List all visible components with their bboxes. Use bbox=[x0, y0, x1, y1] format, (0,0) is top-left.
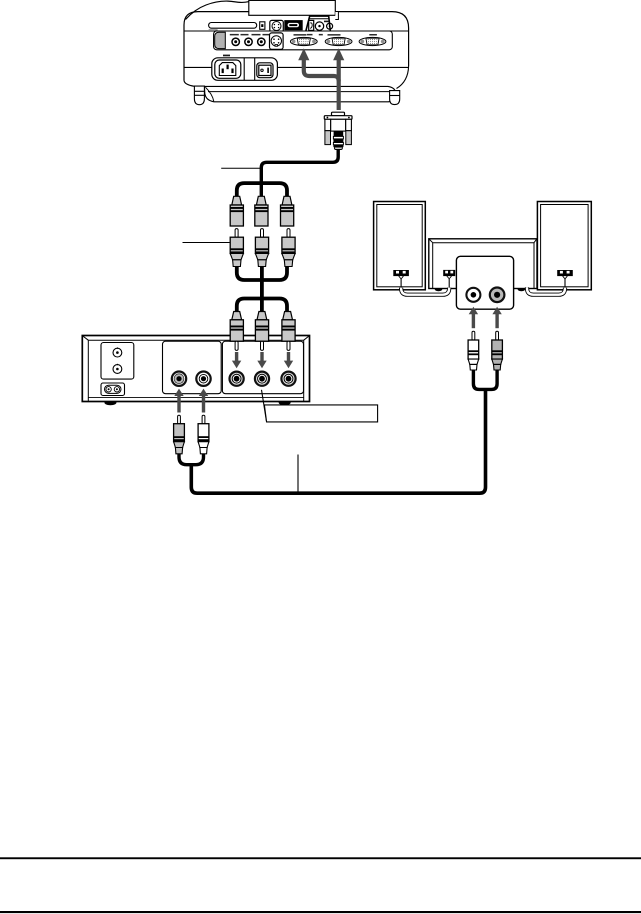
S-video port upper bbox=[270, 20, 284, 31]
cable from VGA plug bbox=[261, 150, 338, 197]
AC IN label bbox=[223, 55, 230, 57]
signal cable main shaft bbox=[337, 60, 341, 111]
PC control DIN port bbox=[315, 22, 323, 34]
arrow into COMPUTER 1 bbox=[298, 48, 309, 60]
PC card slot bbox=[209, 23, 257, 29]
left speaker wire bbox=[401, 279, 449, 295]
component Cr jack bbox=[281, 372, 295, 386]
S-video port lower bbox=[270, 33, 284, 49]
audio video RCA jack 1 bbox=[232, 38, 239, 45]
cable splitter bottom bbox=[237, 299, 287, 312]
VGA connector COMPUTER 2 IN bbox=[325, 37, 352, 45]
callout label box DVD bbox=[264, 405, 377, 422]
footer rule upper bbox=[0, 857, 641, 859]
arrow into amp R jack bbox=[492, 307, 501, 328]
amp audio R jack bbox=[490, 288, 505, 303]
arrow into Cr jack bbox=[284, 352, 293, 368]
VGA connector RGB OUT bbox=[359, 37, 386, 45]
amp audio L jack bbox=[466, 288, 480, 302]
arrow into COMPUTER 2 bbox=[333, 48, 344, 60]
amplifier left terminal bbox=[443, 270, 455, 276]
VGA connector COMPUTER 1 IN bbox=[290, 37, 317, 45]
RCA plug into Cb jack bbox=[255, 312, 268, 351]
RCA plug down Cb bbox=[255, 196, 268, 226]
IEC inlet shield bbox=[219, 63, 236, 76]
right rear foot bbox=[390, 91, 400, 105]
component Y jack bbox=[230, 372, 244, 386]
audio plug R bbox=[198, 415, 209, 454]
arrow into Y jack bbox=[232, 352, 241, 368]
DVD audio panel bbox=[163, 341, 222, 394]
audio cable R branch bbox=[191, 454, 203, 465]
leader line optional cable bbox=[221, 167, 260, 169]
audio L jack bbox=[172, 372, 186, 386]
audio cable run to amplifier bbox=[191, 389, 485, 493]
jack labels row bbox=[230, 34, 377, 36]
left rear foot bbox=[194, 86, 204, 105]
projector top cover silhouette bbox=[186, 1, 250, 19]
audio plug L bbox=[174, 415, 185, 454]
arrow into audio L jack bbox=[174, 389, 183, 413]
RCA plug into Y jack bbox=[230, 312, 243, 351]
amp cable R branch bbox=[486, 370, 498, 390]
audio R jack bbox=[196, 372, 210, 386]
arrow into amp L jack bbox=[469, 307, 478, 328]
recess gray end cap bbox=[215, 32, 226, 48]
mini jack port bbox=[327, 23, 333, 29]
mini jack label bbox=[324, 21, 329, 23]
AC inlet and switch assembly bbox=[212, 58, 278, 81]
divider lines bbox=[243, 58, 245, 81]
right speaker bbox=[537, 202, 591, 290]
left body bottom curve bbox=[184, 81, 194, 87]
monitor DVI port bbox=[285, 21, 302, 30]
power switch bbox=[257, 63, 273, 78]
terminal recess bbox=[214, 31, 393, 50]
RCA plug into Cr jack bbox=[282, 312, 295, 351]
arrow into audio R jack bbox=[199, 389, 208, 413]
PC CARD label bbox=[209, 29, 218, 31]
port nub behind box bbox=[335, 12, 338, 20]
right speaker terminal bbox=[557, 270, 573, 276]
right speaker wire bbox=[527, 279, 565, 295]
audio video RCA jack 2 bbox=[245, 38, 252, 45]
component Cb jack bbox=[255, 372, 269, 386]
amplifier body bbox=[429, 239, 537, 289]
rear panel lower divider line bbox=[184, 66, 409, 68]
RCA plug down Cr bbox=[281, 196, 294, 226]
bottom cover strip bbox=[204, 86, 396, 101]
RCA plug up Cr bbox=[282, 229, 295, 267]
amplifier rear closeup box bbox=[456, 256, 513, 309]
left speaker terminal bbox=[393, 270, 409, 276]
amplifier foot left bbox=[435, 289, 443, 292]
left speaker bbox=[374, 202, 426, 290]
USB / PC control recess panel bbox=[305, 16, 330, 33]
amp plug R gray bbox=[492, 331, 503, 370]
cable join lower bbox=[237, 266, 287, 280]
right body bottom curve bbox=[397, 66, 409, 89]
RCA plug up Cb bbox=[255, 229, 268, 267]
DVD player body bbox=[82, 336, 309, 402]
VGA cable plug bbox=[324, 112, 352, 149]
DVD selector panel bbox=[101, 343, 134, 380]
DVD foot left bbox=[104, 402, 116, 406]
projector rear body bbox=[184, 1, 409, 102]
DVD component panel bbox=[222, 341, 303, 394]
security lock slot bbox=[260, 22, 265, 30]
USB port bbox=[309, 20, 314, 30]
amplifier foot right bbox=[517, 289, 525, 292]
RCA plug up Y bbox=[230, 229, 243, 267]
DVD foot right bbox=[279, 402, 291, 406]
combined cable trunk bbox=[260, 266, 264, 311]
audio cable L branch bbox=[179, 454, 191, 465]
arrow into Cb jack bbox=[257, 352, 266, 368]
RCA plug down Y bbox=[230, 196, 243, 226]
leader line audio cable bbox=[297, 455, 299, 492]
leader line component cable bbox=[183, 242, 230, 244]
rear panel upper divider line bbox=[184, 30, 409, 32]
footer rule lower bbox=[0, 911, 641, 913]
signal cable elbow branch bbox=[304, 60, 339, 82]
callout leader diagonal bbox=[262, 390, 267, 422]
cable splitter top bbox=[237, 183, 287, 196]
audio video RCA jack 3 bbox=[258, 38, 265, 45]
amp plug L white bbox=[468, 331, 479, 370]
DVD AC socket bbox=[101, 383, 125, 396]
amp cable L branch bbox=[473, 370, 485, 390]
callout label box top bbox=[249, 0, 335, 15]
